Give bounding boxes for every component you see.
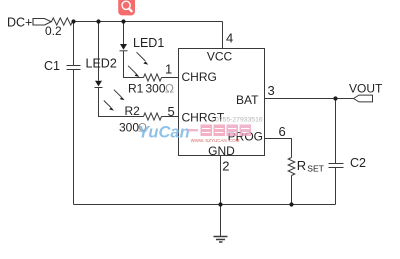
svg-text:0.2: 0.2 [45,24,62,38]
node junction RSET/bottom rail [289,202,293,206]
ground symbol [214,205,228,243]
svg-text:VCC: VCC [207,50,233,64]
watermark chinese characters [188,125,251,137]
magnifier icon overlay [118,0,135,15]
wire C2 branch lower [335,168,337,205]
svg-text:GND: GND [208,144,235,158]
wire LED2 anode [98,22,100,81]
svg-text:1: 1 [165,62,172,77]
svg-text:300: 300 [146,82,166,96]
svg-text:C2: C2 [350,156,366,170]
wire BAT pin 3 to VOUT [265,98,354,100]
svg-text:3: 3 [268,83,275,98]
svg-text:2: 2 [222,159,229,174]
svg-text:CHRG: CHRG [182,70,217,84]
wire left branch lower [73,70,75,205]
connector VOUT tag [354,95,373,102]
resistor RSET [288,158,295,176]
svg-text:LED1: LED1 [133,36,164,50]
connector DC+ input tag [33,19,51,26]
LED LED2 diode [95,81,103,88]
resistor R1 [144,74,162,81]
svg-text:VOUT: VOUT [349,81,383,95]
resistor R2 [144,113,162,120]
svg-text:Ω: Ω [165,82,174,96]
svg-text:5: 5 [168,104,175,119]
IC U1 box [179,49,265,156]
svg-text:BAT: BAT [236,93,259,107]
node junction GND/bottom rail [218,202,222,206]
wire LED2 cathode to R2 [99,88,144,117]
label R2 value 300 ohm [119,121,147,135]
capacitor C2 [329,164,344,168]
wire top rail [73,21,223,23]
wire VCC pin 4 drop [222,22,224,49]
svg-text:0755-27933516: 0755-27933516 [215,117,263,124]
wire R1 to pin 1 [162,77,179,79]
node junction LED1 branch [121,19,125,23]
svg-text:300: 300 [119,121,139,135]
svg-text:R1: R1 [128,82,144,96]
svg-text:WWW. SZYUCAN. COM: WWW. SZYUCAN. COM [191,138,240,143]
wire R2 to pin 5 [162,116,179,118]
LED2 light arrows [104,90,125,111]
wire C2 branch upper [335,99,337,164]
LED LED1 diode [120,44,128,51]
node junction LED2 branch [96,19,100,23]
svg-text:LED2: LED2 [86,57,117,71]
svg-text:C1: C1 [44,59,60,73]
node junction top-left [71,19,75,23]
wire left branch upper [73,22,75,66]
label RSET [297,158,324,174]
svg-text:6: 6 [279,124,286,139]
wire GND pin 2 drop [220,156,222,205]
wire LED1 anode [123,22,125,45]
wire LED1 cathode to R1 [124,51,144,78]
label R1 value 300 ohm [146,82,175,96]
LED1 light arrows [128,52,148,77]
wire PROG pin 6 to RSET [265,139,292,158]
wire bottom rail [74,204,336,206]
resistor 0.2 (fuse) [52,18,73,25]
svg-text:R: R [297,158,306,173]
svg-text:YuCan: YuCan [138,124,190,142]
svg-text:4: 4 [226,31,233,46]
svg-text:R2: R2 [125,104,141,118]
svg-text:DC+: DC+ [7,15,32,29]
wire RSET to bottom rail [291,176,293,205]
capacitor C1 [67,66,81,70]
node junction VOUT/C2 [333,96,337,100]
svg-text:SET: SET [307,164,324,174]
